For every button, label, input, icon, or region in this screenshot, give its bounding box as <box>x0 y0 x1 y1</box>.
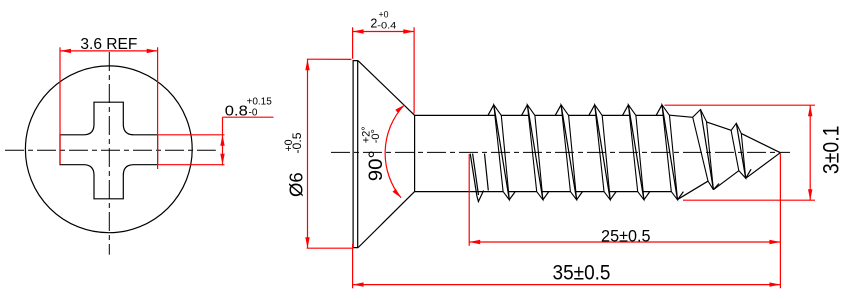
dimension 35 left arrowhead <box>353 282 364 286</box>
dimension 3 plus-minus 0.1 up arrowhead <box>808 105 812 116</box>
dimension diameter 6 label (rotated) <box>283 133 307 198</box>
svg-text:3.6 REF: 3.6 REF <box>80 36 137 53</box>
svg-text:+0.15: +0.15 <box>247 97 273 108</box>
dimension diameter 6 bottom extension line <box>307 247 354 249</box>
dimension 25 left extension line <box>468 154 470 246</box>
svg-text:-0: -0 <box>249 107 258 118</box>
dimension 0.8 dimension line <box>222 117 224 165</box>
dimension diameter 6 top extension line <box>307 58 352 60</box>
svg-text:0.8: 0.8 <box>225 103 248 120</box>
shank bottom line <box>415 191 672 193</box>
dimension 3 plus-minus 0.1 down arrowhead <box>808 189 812 200</box>
dimension 2 left extension line <box>352 27 354 59</box>
svg-text:-0.5: -0.5 <box>292 133 304 154</box>
dimension 35 left extension line <box>352 244 354 288</box>
dimension 0.8 down arrowhead <box>220 154 224 165</box>
countersink angle 90 degree arc <box>385 105 404 198</box>
screw head flat face (side view) <box>353 61 358 248</box>
dimension 0.8 bottom extension line <box>158 164 225 166</box>
dimension 3 plus-minus 0.1 top extension line <box>665 104 816 106</box>
head countersink top slant <box>358 61 414 116</box>
dimension 3.6 REF left extension line <box>59 47 61 164</box>
dimension diameter 6 down arrowhead <box>305 237 309 248</box>
shank top line <box>415 114 670 116</box>
dimension 3 plus-minus 0.1 label (rotated) <box>819 126 844 175</box>
svg-text:-0.4: -0.4 <box>377 21 396 32</box>
thread turn 2 <box>522 105 549 200</box>
dimension 0.8 top extension line <box>158 134 225 136</box>
thread turn 5 <box>623 105 650 200</box>
dimension 3.6 REF left arrowhead <box>60 49 71 53</box>
screw point cone bottom outline <box>678 153 781 200</box>
svg-text:35±0.5: 35±0.5 <box>553 260 611 284</box>
dimension 3 plus-minus 0.1 dimension line <box>809 105 811 200</box>
dimension 35 right arrowhead <box>769 282 780 286</box>
dimension 25 right arrowhead <box>769 240 780 244</box>
svg-text:25±0.5: 25±0.5 <box>601 228 651 246</box>
dimension 35 dimension line <box>353 284 781 286</box>
phillips cross recess outline <box>60 102 158 199</box>
cone thread turn 1 <box>693 110 719 190</box>
head-shank junction line <box>414 115 416 191</box>
dimension 2 left arrowhead <box>353 29 364 33</box>
dimension 3.6 REF right extension line <box>157 47 159 169</box>
dimension 25 dimension line <box>469 241 780 243</box>
thread turn 3 <box>555 105 582 200</box>
side view axis center line <box>331 151 790 153</box>
countersink angle bottom arrowhead <box>393 189 402 198</box>
countersink angle top arrowhead <box>395 105 404 113</box>
svg-text:Ø6: Ø6 <box>286 172 307 197</box>
dimension diameter 6 dimension line <box>307 59 309 248</box>
screw head outline circle (front view) <box>25 66 192 233</box>
dimension 3 plus-minus 0.1 bottom extension line <box>683 199 815 201</box>
dimension 0.8 leader line <box>223 116 274 118</box>
thread turn 1 <box>488 105 515 200</box>
dimension 25 left arrowhead <box>469 240 480 244</box>
head countersink bottom slant <box>358 192 414 248</box>
dimension diameter 6 up arrowhead <box>305 59 309 70</box>
thread start partial turn <box>470 154 488 202</box>
screw point cone top outline <box>670 115 781 153</box>
svg-text:+0: +0 <box>379 9 389 19</box>
dimension 2 dimension line <box>353 31 415 33</box>
svg-text:-0°: -0° <box>370 129 382 143</box>
dimension 3.6 REF dimension line <box>60 50 158 52</box>
dimension 2 right extension line <box>413 27 415 113</box>
horizontal center line (front view) <box>5 149 216 151</box>
countersink angle label 90 degrees (rotated) <box>360 126 387 181</box>
dimension 2 right arrowhead <box>403 29 414 33</box>
svg-text:90°: 90° <box>365 150 387 181</box>
svg-text:3±0.1: 3±0.1 <box>819 126 844 175</box>
thread turn 4 <box>589 105 616 200</box>
dimension 0.8 up arrowhead <box>220 135 224 146</box>
cone thread turn 2 <box>731 123 751 178</box>
dimension 3.6 REF right arrowhead <box>147 49 158 53</box>
dimension 35 right extension line (screw tip) <box>779 154 781 289</box>
vertical center line (front view) <box>108 52 110 255</box>
thread turn 6 <box>656 105 683 200</box>
